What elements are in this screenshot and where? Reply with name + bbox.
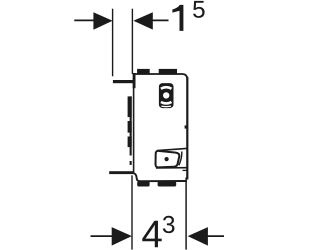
left rail tooth 2 [128, 121, 132, 133]
lever pivot dot [165, 157, 169, 161]
bottom dimension left arrowhead [112, 227, 132, 246]
bottom dimension right arrowhead [188, 227, 208, 246]
body top edge [134, 74, 187, 80]
lever button outline [156, 151, 180, 168]
top mounting tab 1 [137, 69, 150, 75]
top mounting tab 2 [159, 69, 177, 75]
body left edge [133, 73, 135, 172]
left rail tooth 3 [128, 137, 132, 148]
lever bottom line [156, 167, 187, 169]
sensor bottom white arc [161, 102, 172, 103]
lever lower junction line [183, 169, 187, 171]
body top-left corner chunk [133, 73, 136, 88]
bottom tab 2 [158, 182, 177, 187]
dimension superscript 3 [163, 216, 175, 233]
top dimension left arrowhead [93, 12, 112, 30]
body right edge [186, 77, 188, 180]
lever inner bevel curve [179, 152, 182, 166]
bottom flange bar [109, 171, 134, 174]
top dimension right arrowhead [133, 12, 152, 29]
bottom tab 1 [137, 182, 149, 187]
bottom dimension left arrow tail [91, 235, 115, 237]
left rail tooth 1 [128, 96, 132, 117]
sensor bottom white slot [161, 105, 171, 108]
dimension superscript 5 [193, 1, 205, 18]
left rail lower nub [130, 161, 132, 165]
left rail spine [130, 96, 132, 155]
sensor outer block [159, 83, 174, 108]
bottom dimension right arrow tail [206, 235, 224, 237]
body lower-left outline [134, 173, 187, 181]
top dimension left arrow tail [74, 19, 96, 21]
extension line top-left [112, 9, 114, 77]
extension line bottom-right [185, 178, 187, 250]
top dimension right arrow tail [152, 19, 169, 21]
dimension text 4 [142, 221, 161, 247]
dimension text 1 [172, 5, 183, 31]
top flange bar [113, 80, 135, 83]
sensor white center [163, 92, 169, 98]
extension line top-right [131, 9, 133, 74]
lever shelf top line [157, 148, 187, 150]
right edge nub [185, 125, 187, 128]
extension line bottom-left [131, 175, 133, 249]
sensor top white arc [161, 87, 172, 89]
